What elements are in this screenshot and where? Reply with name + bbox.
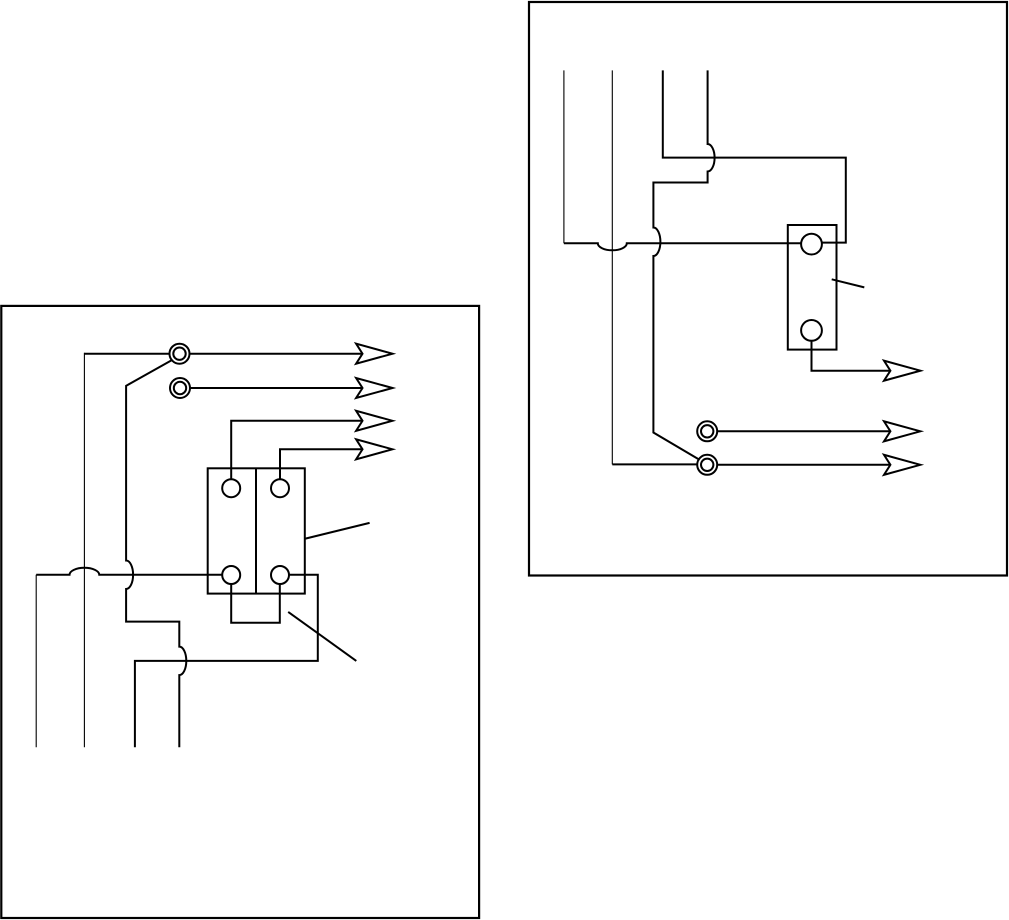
wire: TB1 pin 4 right, down and left to bottom stub	[135, 575, 318, 748]
wire: E4 to arrow 7	[717, 464, 890, 466]
terminal E2 (double circle)	[170, 378, 190, 398]
callout leader to TB2 body	[832, 279, 865, 287]
wire: terminal block TB1 pin 1 up to arrow 3	[231, 421, 362, 479]
wire: E3 to arrow 6	[717, 430, 890, 432]
arrow 5 (cable leader)	[884, 361, 920, 381]
terminal E1 (double circle)	[170, 344, 190, 364]
terminal block TB1 body	[208, 468, 305, 593]
wire: thin vertical stub at x=36	[35, 575, 37, 748]
wire: terminal block TB1 pin 2 up to arrow 4	[280, 449, 363, 479]
arrow 1 (cable leader)	[356, 344, 392, 364]
wire: horizontal feed to TB1 pin 3 with hop	[36, 568, 222, 575]
TB1 pin 4	[271, 566, 289, 584]
callout leader to U-link	[288, 612, 356, 661]
TB1 pin 2	[271, 479, 289, 497]
wire: TB2 pin 2 down and right to arrow 5	[812, 341, 891, 371]
callout leader to TB1 body	[305, 523, 369, 539]
terminal E3 (double circle)	[697, 421, 717, 441]
wire: v3 down, right and into TB2 pin 1 right side	[663, 70, 846, 242]
arrow 6 (cable leader)	[884, 421, 920, 441]
wire: v4 with hops, down and diagonal to terminal E4	[653, 70, 714, 460]
terminal block TB2 body	[788, 225, 837, 350]
enclosure frame (right panel)	[529, 2, 1007, 576]
wire: thin vertical v2	[611, 70, 613, 464]
wire: E2 to arrow 2	[190, 387, 363, 389]
wire: diagonal from E1 down with hops to bottom stub	[126, 360, 186, 747]
arrow 7 (cable leader)	[884, 455, 920, 475]
wire: U-link TB1 pin 3 to pin 4	[231, 584, 280, 623]
wire: v1 horizontal run to TB2 pin 1 with under-hop	[564, 243, 801, 250]
TB2 pin 2	[801, 320, 822, 341]
wire: thin vertical drop at x=84	[83, 353, 85, 748]
wire: thin vertical v1	[563, 70, 565, 243]
terminal E4 (double circle)	[697, 455, 717, 475]
arrow 4 (cable leader)	[356, 439, 392, 459]
wire: v2 horizontal run to terminal E4	[612, 463, 697, 465]
TB1 pin 3	[222, 566, 240, 584]
enclosure frame (left panel)	[1, 306, 479, 918]
TB1 pin 1	[222, 479, 240, 497]
arrow 3 (cable leader)	[356, 411, 392, 431]
TB2 pin 1	[801, 234, 822, 255]
arrow 2 (cable leader)	[356, 378, 392, 398]
wire: horizontal feed to terminal E1	[84, 353, 169, 355]
wire: E1 to arrow 1	[190, 353, 363, 355]
